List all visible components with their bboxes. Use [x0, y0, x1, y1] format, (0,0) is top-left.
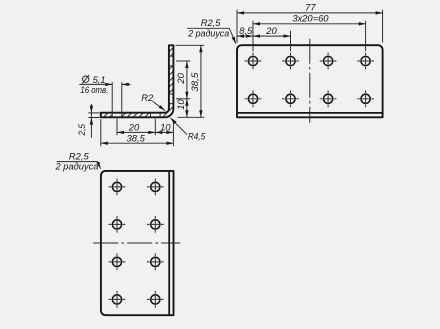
dimension 8,5	[237, 35, 253, 37]
svg-text:10: 10	[175, 99, 186, 110]
dimension 20 (top view)	[253, 35, 291, 37]
dimension 38,5 (bottom)	[101, 142, 174, 144]
hole edges in section: leg rows	[169, 55, 174, 57]
svg-text:10: 10	[160, 122, 171, 133]
svg-text:2,5: 2,5	[76, 123, 87, 136]
hole r1c2 (top view)	[286, 56, 295, 65]
hole r4c2 (bottom view)	[151, 295, 160, 304]
dimension 20 (bottom)	[117, 131, 155, 133]
hole r2c1 (top view)	[248, 94, 257, 103]
dimension 77	[237, 12, 383, 14]
dimension 10 (vertical)	[186, 99, 188, 118]
hole r4c1 (bottom view)	[112, 295, 121, 304]
hole r2c3 (top view)	[324, 94, 333, 103]
bottom-left view: horizontal centerline	[93, 242, 180, 244]
extension lines top view	[236, 10, 238, 43]
thickness 2,5 dimension	[88, 112, 99, 114]
hole r2c4 (top view)	[361, 94, 370, 103]
dimension 20 (vertical)	[186, 61, 188, 99]
svg-text:77: 77	[305, 2, 316, 13]
extension lines for right-side dims	[176, 44, 205, 46]
svg-text:38,5: 38,5	[189, 72, 200, 92]
hole r1c2 (bottom view)	[151, 182, 160, 191]
leader R2,5 2 radiusa (top view)	[187, 27, 229, 29]
dimension 38,5 (vertical)	[200, 45, 202, 117]
hole r3c2 (bottom view)	[151, 257, 160, 266]
leader R2,5 2 radiusa (bottom view)	[57, 161, 98, 163]
dimension 10 (bottom)	[155, 131, 173, 133]
leader R2 (inner bend radius)	[153, 101, 166, 110]
hole r1c1 (bottom view)	[112, 182, 121, 191]
svg-text:38,5: 38,5	[127, 133, 146, 144]
top-right view: plate outline	[237, 45, 383, 117]
hole r1c4 (top view)	[361, 56, 370, 65]
side view: angle cross-section outline	[101, 45, 174, 117]
hole edges in section: plate col2	[150, 113, 152, 118]
hole r1c3 (top view)	[324, 56, 333, 65]
svg-text:2 радиуса: 2 радиуса	[187, 27, 229, 38]
svg-text:R2: R2	[141, 92, 154, 103]
hole r3c1 (bottom view)	[112, 257, 121, 266]
dimension 3x20=60	[253, 23, 366, 25]
top-right view: bend line	[237, 112, 383, 114]
svg-text:R4,5: R4,5	[188, 130, 206, 141]
hole r2c2 (bottom view)	[151, 220, 160, 229]
svg-text:20: 20	[128, 122, 140, 133]
svg-text:20: 20	[265, 25, 277, 36]
extension lines for bottom dims	[116, 119, 118, 135]
bottom-left view: plate outline	[101, 171, 174, 315]
svg-text:8,5: 8,5	[239, 25, 253, 36]
svg-text:16 отв.: 16 отв.	[80, 84, 108, 95]
svg-text:3x20=60: 3x20=60	[292, 13, 329, 24]
top-right view: vertical centerline	[309, 39, 311, 123]
hole edges in section: plate col1	[111, 82, 113, 118]
hole r2c1 (bottom view)	[112, 220, 121, 229]
hole r2c2 (top view)	[286, 94, 295, 103]
svg-text:20: 20	[175, 72, 186, 84]
diameter 5,1 dimension with 16 holes note	[79, 83, 112, 85]
leader R4,5 (outer bend radius)	[170, 118, 187, 135]
svg-text:2 радиуса: 2 радиуса	[55, 161, 99, 172]
hole r1c1 (top view)	[248, 56, 257, 65]
bottom-left view: bend line	[168, 171, 170, 315]
